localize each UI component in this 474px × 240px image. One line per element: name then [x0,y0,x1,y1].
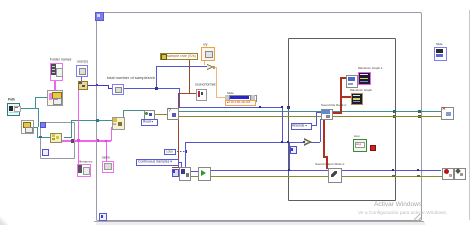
wire teal: down branch to icon B [38,108,39,127]
Slide terminal top-right [436,43,443,47]
wire blue: continuous samples to config [178,162,182,163]
wire pink: icon D down [111,127,112,141]
sound format indicator [195,83,215,87]
total number terminal [112,84,124,95]
window right edge [469,10,470,220]
wire orange: triangle to slide [213,67,217,68]
teal tunnel dot [96,119,99,122]
bottom-right resize grip [413,214,421,221]
wire teal: up branch [35,97,36,108]
bottom-left smudge [0,216,8,225]
total number of samples label [107,76,155,80]
wire brown: icon2 down to config [178,108,179,168]
1000 constant [164,149,176,156]
wire violet: users to tan icon [81,76,82,82]
read dropdown [141,119,158,126]
sound output start icon (play) [198,167,211,181]
wire teal: into icon B [33,127,38,128]
sound file open icon1 [144,110,155,120]
wire blue y142 [185,142,320,143]
sound open icon D [112,117,125,130]
sound read icon A (feeds WG2) [346,75,358,88]
sound info icon2 [167,108,179,120]
x/y label and icon [203,43,207,47]
Sound Output Write.vi [315,163,344,167]
wire teal long: icon2 to close icon [176,111,441,112]
wire blue y170 long [209,170,441,171]
wire olive bottom long [190,176,456,178]
outer loop iteration terminal i [99,213,107,221]
list folder icon B [21,120,34,134]
outer loop top-left glyph [95,12,104,21]
sound output configure icon [179,167,191,181]
list folder icon A1 [47,90,63,106]
Waveform Graph 2 [358,67,382,71]
sound output clear icon [442,168,454,180]
wire teal: to list folder A1 [35,97,47,98]
wire red thick: SFR down to SOW [323,119,325,158]
wire pink: tan icon down through bus to filenames [78,88,80,164]
wire pink bus y140 [61,140,111,142]
junction dots blue [259,106,261,108]
for loop N terminal [40,122,46,128]
tunnel dots on long wires [287,106,290,109]
radio indicator [102,156,110,160]
absolute dropdown [291,123,313,130]
Folder names indicator [50,58,71,62]
wire teal: path to junction [19,108,38,109]
gray band below window [96,222,425,226]
outer while loop border [96,12,422,221]
wire blue: total samples right [124,88,179,89]
blue tunnel dot at loop edge [96,84,99,87]
wire blue x288 down to y170 [289,142,290,170]
index array tan icon [78,81,88,90]
filenames indicator [79,160,92,164]
red condition square [370,145,377,151]
continuous samples dropdown [136,159,179,167]
wire blue x282 down [282,107,283,142]
wire teal: inside for loop [37,127,38,137]
pink junction dots [77,139,80,142]
sound close icon right [441,107,454,120]
build path icon C inside for loop [50,133,62,143]
wire blue: 1000 to junction [174,151,185,152]
Path control [8,98,15,102]
wire blue: tan icon to total samples [87,85,109,86]
for loop border [40,122,75,159]
wire olive long: icon2 to close icon [176,116,441,118]
wire blue x320 up to SFR [320,119,321,142]
window bottom line [94,221,424,222]
watermark Activar Windows [374,202,422,206]
wire pink: folder names down [54,79,56,105]
sample rate labeled box [160,53,198,60]
Sound File Read.vi [321,104,346,108]
users control [77,60,88,64]
inner loop iteration terminal i [290,146,297,154]
wire blue y107 [179,107,282,108]
wire red thick: SFR right up to A [332,112,342,114]
small blue enum icon [172,169,179,177]
wire brown: sample rate down [189,59,190,93]
slide indicator bar [227,92,234,96]
for loop i terminal [42,149,49,156]
wire orange: x/y down to triangle [204,60,205,65]
wire blue config to play [190,171,199,172]
increment triangle on y142 [304,138,312,146]
divide triangle [207,64,214,70]
slide digital display [225,100,256,105]
Waveform Graph [350,89,372,93]
wire teal: for loop output up to y120 [64,137,72,138]
stop button [354,135,360,139]
wire olive: icon1 to icon2 [153,114,167,115]
wire blue: absolute to SFR [311,125,317,126]
error handler icon [454,168,466,180]
wire pink: down to radio [106,140,107,161]
junction dots olive [392,175,395,178]
wire teal: icon D up and right to icon1 [123,110,124,119]
inner while loop border [288,38,396,201]
